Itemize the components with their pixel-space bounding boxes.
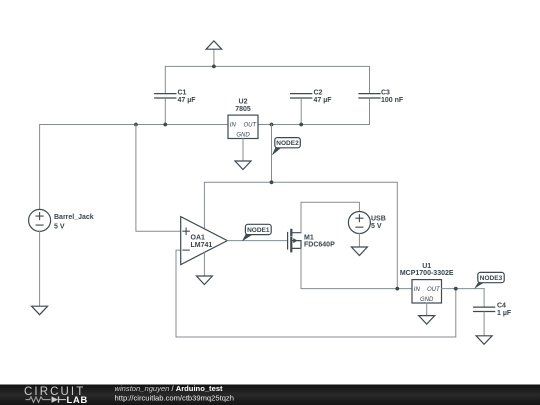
- svg-text:U1: U1: [422, 263, 431, 270]
- wire M1 drain up: [301, 202, 359, 233]
- ground USB: [351, 247, 367, 256]
- logo CircuitLab: [24, 386, 88, 405]
- flag NODE1: [242, 224, 271, 241]
- wire opamp bottom supply: [203, 253, 205, 276]
- capacitor C1: [155, 89, 196, 104]
- wire opamp minus input feedback: [176, 250, 456, 337]
- svg-text:IN: IN: [230, 123, 237, 129]
- svg-text:OA1: OA1: [191, 234, 206, 241]
- capacitor C4: [474, 303, 512, 318]
- node junction feedback: [454, 287, 458, 291]
- flag NODE2: [272, 138, 301, 156]
- svg-text:47 µF: 47 µF: [178, 97, 197, 104]
- svg-text:C4: C4: [497, 303, 506, 310]
- capacitor C3: [359, 89, 404, 104]
- svg-text:GND: GND: [236, 133, 250, 139]
- capacitor C2: [291, 89, 333, 104]
- node junction supply rail: [270, 180, 274, 184]
- op-amp OA1: [181, 217, 228, 265]
- wire M1 source down: [301, 248, 412, 288]
- svg-text:C3: C3: [381, 89, 390, 96]
- transistor M1: [288, 230, 335, 251]
- svg-text:LAB: LAB: [67, 395, 89, 405]
- svg-text:5 V: 5 V: [54, 223, 65, 230]
- wire C3 bottom stub: [258, 99, 370, 125]
- voltage source Barrel_Jack: [29, 209, 94, 231]
- footer bar: [0, 385, 540, 405]
- svg-text:GND: GND: [420, 297, 434, 303]
- wire U2 gnd stub: [242, 139, 244, 162]
- footer title text: [115, 384, 234, 403]
- svg-text:100 nF: 100 nF: [381, 97, 404, 104]
- ground C4: [476, 336, 492, 345]
- svg-text:U2: U2: [239, 99, 248, 106]
- power flag VCC: [206, 41, 222, 49]
- ground U1: [419, 316, 435, 325]
- svg-text:7805: 7805: [235, 106, 251, 113]
- wire NODE2 branch vertical: [271, 125, 273, 183]
- svg-text:Barrel_Jack: Barrel_Jack: [54, 214, 94, 221]
- svg-text:M1: M1: [304, 235, 314, 242]
- wire VCC stem: [213, 49, 215, 66]
- svg-text:NODE3: NODE3: [480, 275, 503, 282]
- svg-text:C1: C1: [178, 89, 187, 96]
- wire top rail: [165, 66, 369, 93]
- svg-text:NODE1: NODE1: [247, 227, 270, 234]
- wire opamp plus input: [136, 125, 181, 232]
- svg-text:NODE2: NODE2: [276, 140, 299, 147]
- wire U1 gnd stub: [426, 303, 428, 316]
- wire USB gnd stub: [358, 234, 360, 248]
- svg-text:OUT: OUT: [244, 123, 258, 129]
- wire supply rail to U1: [204, 182, 397, 288]
- ground Barrel_Jack: [32, 306, 48, 315]
- wire Barrel_Jack gnd stub: [39, 231, 41, 306]
- wire C4 bottom stub: [483, 312, 485, 336]
- svg-text:LM741: LM741: [191, 242, 213, 249]
- node junction U1 in: [395, 287, 399, 291]
- node junction C1: [163, 123, 167, 127]
- svg-text:C2: C2: [314, 89, 323, 96]
- svg-text:FDC640P: FDC640P: [304, 242, 335, 249]
- node junction NODE2 branch: [270, 123, 274, 127]
- ground U2: [235, 161, 251, 170]
- flag NODE3: [474, 272, 504, 288]
- wire C1 bottom stub: [164, 99, 166, 125]
- svg-text:47 µF: 47 µF: [314, 97, 333, 104]
- svg-text:winston_nguyen / Arduino_test: winston_nguyen / Arduino_test: [115, 384, 224, 393]
- svg-text:5 V: 5 V: [371, 223, 382, 230]
- svg-text:MCP1700-3302E: MCP1700-3302E: [400, 270, 454, 277]
- voltage regulator U2: [228, 99, 258, 139]
- node junction top rail: [212, 65, 216, 69]
- svg-text:IN: IN: [414, 287, 421, 293]
- wire opamp output to gate: [227, 240, 287, 242]
- wire U1 out: [442, 288, 485, 290]
- wire C2 bottom stub: [300, 99, 302, 125]
- svg-text:http://circuitlab.com/ctb39mq2: http://circuitlab.com/ctb39mq25tqzh: [115, 393, 234, 402]
- svg-text:USB: USB: [371, 216, 386, 223]
- ground opamp: [196, 276, 212, 285]
- voltage source USB: [348, 212, 385, 234]
- node junction opamp tap: [134, 123, 138, 127]
- voltage regulator U1: [400, 263, 454, 303]
- svg-text:OUT: OUT: [427, 287, 441, 293]
- wire C4 top stub: [483, 289, 485, 307]
- wire input rail: [40, 125, 228, 210]
- svg-text:1 µF: 1 µF: [497, 310, 512, 317]
- node junction C2: [299, 123, 303, 127]
